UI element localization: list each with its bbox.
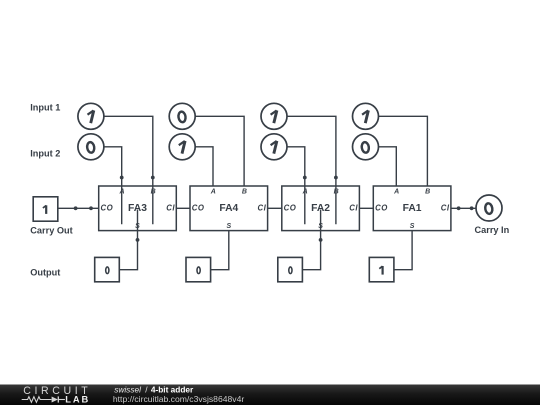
wire input-2 to FA1.A xyxy=(379,147,397,186)
input-1 terminal (FA2) value 1 xyxy=(261,103,287,129)
svg-text:http://circuitlab.com/c3vsjs86: http://circuitlab.com/c3vsjs8648v4r xyxy=(113,394,244,404)
svg-text:B: B xyxy=(425,189,430,196)
junction on FA2.S wire xyxy=(319,238,323,242)
svg-text:CO: CO xyxy=(192,204,205,213)
svg-text:FA1: FA1 xyxy=(403,203,422,214)
wire FA3.S to output xyxy=(119,210,137,270)
svg-text:A: A xyxy=(393,189,399,196)
junction on carry-in wire (right) xyxy=(470,206,474,210)
input-2 terminal (FA3) value 0 xyxy=(78,134,104,160)
wire input-1 to FA4.B xyxy=(195,116,244,186)
wire FA3.CI to FA4.CO xyxy=(176,207,190,209)
svg-text:swissel / 4-bit adder: swissel / 4-bit adder xyxy=(114,384,194,394)
svg-text:CI: CI xyxy=(349,204,358,213)
input-2 terminal (FA2) value 1 xyxy=(261,134,287,160)
svg-text:CI: CI xyxy=(166,204,175,213)
carry-out terminal value 1 xyxy=(33,197,58,221)
svg-text:CO: CO xyxy=(284,204,297,213)
full-adder FA3 box xyxy=(99,186,177,231)
input-2 terminal (FA1) value 0 xyxy=(353,134,379,160)
wire FA4.CI to FA2.CO xyxy=(268,207,282,209)
svg-text:Carry In: Carry In xyxy=(475,225,510,235)
input-1 terminal (FA1) value 1 xyxy=(353,103,379,129)
svg-text:Output: Output xyxy=(30,267,60,277)
wire input-2 to FA2.A xyxy=(287,147,305,224)
input-1 terminal (FA3) value 1 xyxy=(78,103,104,129)
wire FA4.S to output xyxy=(211,231,229,270)
logo diode symbol xyxy=(52,396,65,402)
full-adder FA4 box xyxy=(190,186,268,231)
svg-text:CO: CO xyxy=(101,204,114,213)
junction on carry-out wire (left) xyxy=(74,206,78,210)
svg-text:S: S xyxy=(410,223,415,230)
junction on carry-out wire (right) xyxy=(89,206,93,210)
wire FA1.CI to carry-in xyxy=(451,207,476,209)
wire carry-out to FA3.CO xyxy=(58,207,99,209)
junction on FA2.B wire xyxy=(334,176,338,180)
full-adder FA1 box xyxy=(373,186,451,231)
svg-text:CI: CI xyxy=(257,204,266,213)
svg-text:Input 2: Input 2 xyxy=(30,149,60,159)
svg-text:B: B xyxy=(242,189,247,196)
svg-text:A: A xyxy=(210,189,216,196)
wire input-1 to FA1.B xyxy=(379,116,428,186)
wire input-2 to FA3.A xyxy=(104,147,122,224)
junction on FA3.A wire xyxy=(120,176,124,180)
output terminal (FA4) value 0 xyxy=(186,257,211,281)
wire FA1.S to output xyxy=(394,231,412,270)
svg-text:S: S xyxy=(226,223,231,230)
svg-text:CO: CO xyxy=(375,204,388,213)
input-2 terminal (FA4) value 1 xyxy=(169,134,195,160)
output terminal (FA1) value 1 xyxy=(369,257,394,281)
svg-text:Carry Out: Carry Out xyxy=(30,226,72,236)
full-adder FA2 box xyxy=(282,186,360,231)
junction on carry-in wire (left) xyxy=(457,206,461,210)
wire FA2.S to output xyxy=(302,210,320,270)
input-1 terminal (FA4) value 0 xyxy=(169,103,195,129)
junction on FA3.B wire xyxy=(151,176,155,180)
wire input-2 to FA4.A xyxy=(195,147,213,186)
output terminal (FA3) value 0 xyxy=(95,257,120,281)
carry-in terminal value 0 xyxy=(476,195,502,221)
svg-text:FA4: FA4 xyxy=(219,203,238,214)
wire input-1 to FA2.B xyxy=(287,116,336,224)
wire FA2.CI to FA1.CO xyxy=(359,207,373,209)
junction on FA3.S wire xyxy=(136,238,140,242)
svg-text:CI: CI xyxy=(441,204,450,213)
svg-text:LAB: LAB xyxy=(65,394,90,404)
footer bar xyxy=(0,385,540,405)
logo resistor symbol xyxy=(22,397,52,403)
junction on FA2.A wire xyxy=(303,176,307,180)
output terminal (FA2) value 0 xyxy=(278,257,303,281)
svg-text:Input 1: Input 1 xyxy=(30,103,60,113)
wire input-1 to FA3.B xyxy=(104,116,153,224)
